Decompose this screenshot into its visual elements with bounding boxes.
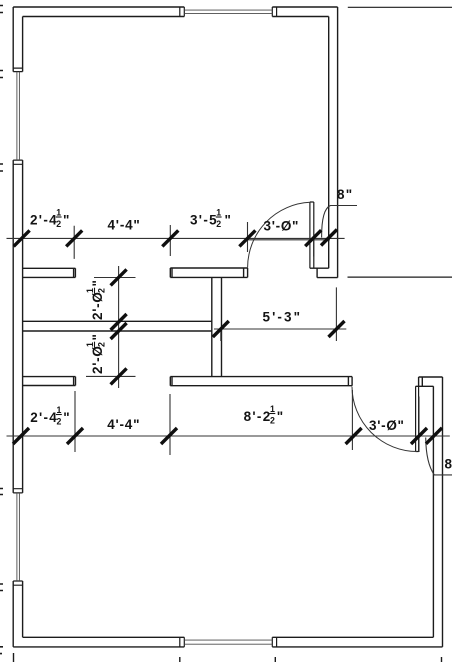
left edge cut ticks	[0, 6, 3, 654]
svg-text:": "	[225, 213, 233, 228]
window W4 bottom-wall jamb caps	[180, 637, 277, 647]
window W2 left-wall jamb caps	[13, 489, 22, 586]
text 2'-4 1/2" lower	[30, 405, 71, 427]
svg-text:2'-4: 2'-4	[30, 410, 58, 425]
wall bottom outer	[13, 646, 442, 648]
dimension line upper chain	[7, 237, 345, 239]
svg-text:1: 1	[57, 405, 62, 415]
svg-text:": "	[90, 279, 105, 286]
svg-text:2: 2	[216, 219, 221, 229]
door D1 leaf (upper)	[310, 202, 314, 268]
text 8'-2 1/2"	[244, 404, 285, 426]
text 2'-4 1/2" upper	[30, 208, 71, 230]
svg-text:8": 8"	[337, 187, 354, 202]
wall bottom inner	[23, 636, 434, 638]
text 2'-0 1/2" vertical upper	[85, 279, 107, 320]
wall right of upper room	[329, 7, 338, 278]
wall band A left piece	[23, 268, 76, 277]
svg-text:": "	[277, 409, 285, 424]
adjacent structure cut line top right	[348, 6, 452, 8]
svg-text:": "	[63, 410, 71, 425]
svg-text:2'-4: 2'-4	[30, 213, 58, 228]
svg-text:2: 2	[57, 417, 62, 427]
svg-text:8'-2: 8'-2	[244, 409, 272, 424]
svg-text:": "	[90, 333, 105, 340]
svg-text:": "	[63, 213, 71, 228]
wall left inner	[22, 17, 24, 638]
extension lines 5'-3"	[221, 287, 337, 341]
dimension line door D1 3-0 and 8in	[248, 239, 331, 241]
svg-text:3'-Ø": 3'-Ø"	[264, 219, 300, 234]
svg-text:2: 2	[56, 219, 61, 229]
svg-text:4'-4": 4'-4"	[108, 217, 141, 232]
wall band C right piece	[170, 377, 352, 386]
wall east of lower room	[433, 377, 442, 647]
text 3'-5 1/2"	[190, 208, 232, 230]
window W3 glass	[184, 10, 272, 14]
svg-text:1: 1	[270, 404, 275, 414]
window W1 left-wall jamb caps	[13, 68, 22, 164]
tick marks vertical chain	[111, 269, 127, 384]
svg-text:3'-5: 3'-5	[190, 213, 218, 228]
wall stem T	[212, 277, 222, 376]
wall top outer	[13, 6, 337, 8]
svg-text:5'-3": 5'-3"	[263, 310, 303, 325]
wall band B	[23, 321, 212, 331]
window W3 top-wall jamb caps	[180, 7, 277, 17]
door D1 swing arc	[248, 202, 311, 267]
leader for 8" lower	[426, 438, 452, 475]
window W2 glass	[17, 493, 20, 581]
svg-text:1: 1	[85, 342, 95, 347]
svg-text:2'-Ø: 2'-Ø	[90, 291, 105, 320]
svg-text:8": 8"	[445, 456, 452, 471]
svg-text:1: 1	[85, 288, 95, 293]
wall piece east of lower door	[416, 377, 443, 386]
bottom edge cut ticks	[14, 653, 442, 662]
wall top inner	[23, 16, 329, 18]
extension lines lower chain	[75, 390, 419, 455]
wall band A right piece	[170, 268, 247, 277]
text 2'-0 1/2" vertical lower	[85, 333, 107, 374]
svg-text:1: 1	[216, 208, 221, 218]
window W1 glass	[17, 72, 20, 161]
tick marks lower chain	[13, 428, 442, 444]
dimension line lower chain	[7, 435, 450, 437]
door D2 leaf (lower)	[416, 386, 419, 451]
svg-text:3'-Ø": 3'-Ø"	[369, 418, 405, 433]
wall left outer	[12, 7, 14, 647]
svg-text:2: 2	[270, 416, 275, 426]
adjacent structure cut line mid right	[348, 276, 452, 278]
tick marks 5'-3"	[213, 321, 345, 337]
wall band C left piece	[23, 377, 76, 386]
wall stub east of upper door	[310, 268, 338, 277]
svg-text:2: 2	[97, 288, 107, 293]
svg-text:2: 2	[97, 342, 107, 347]
extension lines vertical chain	[86, 278, 136, 377]
window W4 glass	[184, 640, 272, 644]
svg-text:1: 1	[56, 208, 61, 218]
tick marks upper chain	[14, 230, 337, 247]
svg-text:4'-4": 4'-4"	[107, 417, 140, 432]
door D2 swing arc	[352, 387, 417, 452]
dimension line vertical chain	[118, 266, 120, 388]
svg-text:2'-Ø: 2'-Ø	[90, 345, 105, 374]
leader for 8" upper	[322, 206, 357, 238]
dimension line 5'-3"	[214, 328, 346, 330]
extension lines upper chain	[74, 222, 313, 259]
